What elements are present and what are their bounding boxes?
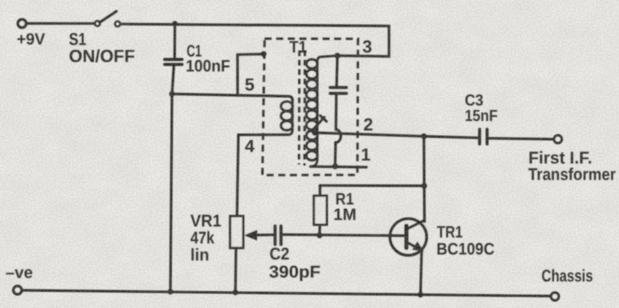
node junction bottom rail / C1 xyxy=(168,289,174,295)
inductor T1 primary winding xyxy=(281,99,293,135)
terminal -ve xyxy=(13,286,21,294)
node junction C1 / pin5 wire xyxy=(169,91,175,97)
transistor TR1 xyxy=(390,219,427,295)
node junction R1 top / collector riser xyxy=(421,183,427,189)
node pin 5 dot on box edge xyxy=(261,51,267,57)
capacitor C3 xyxy=(480,129,553,144)
node junction R1 bottom / base wire xyxy=(317,232,323,238)
internal capacitor of T1 xyxy=(330,56,346,167)
terminal +9V xyxy=(18,19,26,27)
wire collector riser (pin2 junction to TR1 collector) xyxy=(423,136,426,221)
node junction pin2 wire / collector riser xyxy=(421,133,427,139)
wire top rail left (+9V to S1) xyxy=(27,22,95,25)
terminal Chassis xyxy=(551,292,559,300)
wire top rail right (S1 to pin3 riser, down to T1 top lead) xyxy=(120,24,389,56)
switch S1 xyxy=(95,11,120,26)
terminal First I.F. Transformer xyxy=(554,135,562,143)
wire base (C2 to TR1 base) xyxy=(282,235,405,236)
wire pin 2 lead (tap to C3, through junction) xyxy=(315,133,478,138)
transformer T1 dashed shield box xyxy=(262,39,358,175)
core of T1 (dashed lines) xyxy=(298,51,301,165)
potentiometer VR1 xyxy=(230,216,273,292)
capacitor C2 xyxy=(275,226,281,244)
inductor T1 secondary winding xyxy=(306,56,337,167)
tuning slug arrow of T1 xyxy=(312,116,327,132)
wire C1 to bottom rail xyxy=(170,94,172,292)
capacitor C1 xyxy=(165,24,182,94)
node junction bottom lead / internal capacitor xyxy=(332,163,338,169)
wire pin 5 branch to box edge xyxy=(238,54,262,95)
node junction bottom rail / VR1 xyxy=(233,290,239,296)
node tap on secondary (pin 2 tap) xyxy=(312,130,318,136)
wire pin 5 lead (C1 junction to primary top) xyxy=(172,94,293,100)
node junction T1 top lead / internal capacitor xyxy=(335,53,341,59)
node junction top rail / C1 xyxy=(172,21,178,27)
resistor R1 xyxy=(314,186,327,236)
node junction emitter / bottom rail xyxy=(418,292,424,298)
wire pin 1 stub (secondary bottom) xyxy=(311,165,367,168)
wire R1 top connection xyxy=(320,184,424,187)
wire bottom rail xyxy=(23,290,551,296)
wire pin 4 lead (primary bottom to VR1 top) xyxy=(237,135,288,216)
